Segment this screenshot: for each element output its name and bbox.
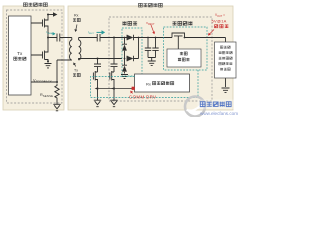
svg-text:VFEEDBACK: VFEEDBACK — [33, 78, 52, 83]
svg-text:5V@1A: 5V@1A — [212, 19, 227, 24]
svg-text:Tx: Tx — [17, 51, 23, 56]
svg-text:VRECT: VRECT — [146, 21, 155, 26]
svg-text:VOUT =: VOUT = — [215, 13, 225, 18]
svg-text:RSENSE: RSENSE — [40, 93, 53, 98]
svg-text:www.elecfans.com: www.elecfans.com — [200, 111, 238, 116]
svg-text:Rx: Rx — [74, 14, 79, 18]
svg-text:Rx: Rx — [146, 82, 151, 87]
svg-text:Tx: Tx — [74, 69, 78, 73]
svg-text:COMM DRV: COMM DRV — [129, 95, 157, 100]
